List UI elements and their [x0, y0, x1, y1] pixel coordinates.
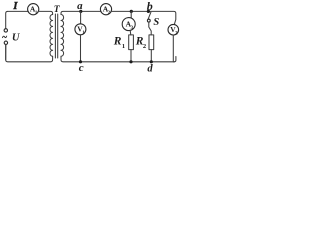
wire: secondary bottom lead and bottom rail to right corner	[61, 56, 174, 61]
svg-text:S: S	[153, 17, 159, 28]
transformer core line 1	[54, 14, 56, 58]
node b	[147, 10, 150, 13]
wire: V2 bottom to bottom-right corner	[173, 35, 176, 62]
source U terminal upper	[4, 29, 7, 32]
svg-text:I: I	[12, 0, 18, 12]
svg-text:b: b	[147, 0, 153, 13]
wire: node a down to voltmeter V1	[80, 11, 82, 24]
svg-text:c: c	[79, 62, 84, 73]
wire: A3 to resistor R1	[129, 31, 132, 35]
wire: left edge top (upper terminal up to top-left corner)	[6, 11, 8, 28]
wire: secondary top lead to node a	[61, 11, 101, 14]
source U terminal lower	[4, 41, 7, 44]
resistor R2	[149, 35, 154, 50]
transformer T secondary winding	[61, 15, 64, 57]
node a	[79, 10, 82, 13]
transformer T primary winding	[50, 15, 53, 57]
wire: top-left horizontal to ammeter A1	[8, 10, 29, 12]
voltmeter V1	[75, 24, 86, 35]
wire: switch to resistor R2	[149, 22, 151, 35]
node c	[79, 60, 82, 63]
wire: R2 bottom to node d	[150, 50, 152, 62]
svg-text:R: R	[113, 36, 122, 48]
ammeter A2	[100, 4, 111, 15]
svg-text:1: 1	[122, 43, 125, 50]
wire: V1 down to node c	[80, 35, 82, 62]
node d	[150, 60, 153, 63]
ammeter A1	[28, 4, 39, 15]
svg-text:d: d	[147, 64, 153, 73]
ammeter A3	[122, 18, 135, 31]
wire: A2 to node b and on to top-right corner	[111, 11, 176, 24]
svg-text:2: 2	[143, 43, 146, 50]
wire: lower terminal down left edge	[5, 44, 7, 59]
wire: A1 to transformer primary top	[38, 11, 52, 14]
wire: junction down to ammeter A3	[130, 11, 132, 17]
switch S contact	[147, 19, 150, 22]
wire: R1 bottom to rail	[130, 50, 132, 62]
resistor R1	[129, 35, 134, 50]
label ~ (AC)	[2, 36, 6, 38]
transformer core line 2	[57, 14, 59, 58]
switch S blade	[148, 12, 151, 19]
wire: primary bottom lead to bottom-left rail	[6, 44, 53, 61]
node: R1 bottom junction	[129, 60, 132, 63]
node: junction of A3 branch on top wire	[130, 10, 133, 13]
svg-text:a: a	[77, 0, 83, 12]
voltmeter V2	[168, 24, 179, 35]
